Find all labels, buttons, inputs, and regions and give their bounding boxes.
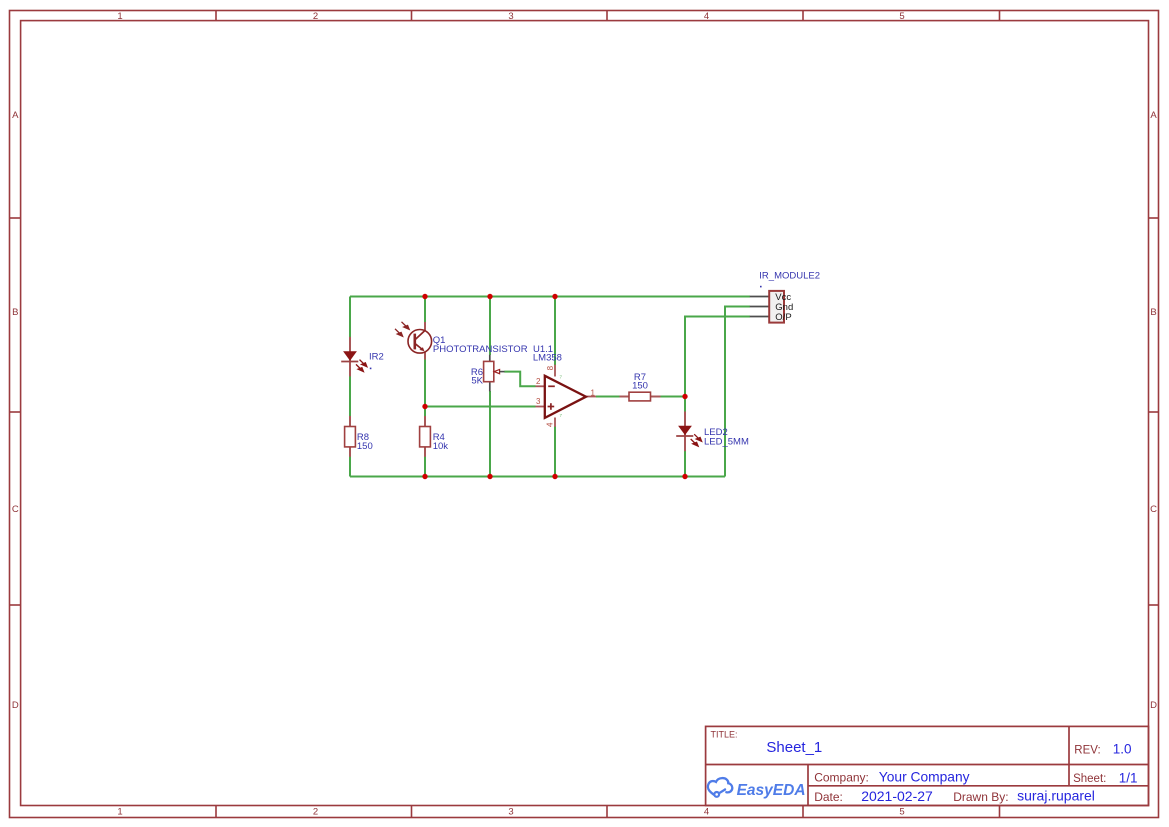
wire opamp output to R7: [596, 396, 620, 398]
wire wiper to pin2: [504, 372, 535, 387]
svg-text:Drawn By:: Drawn By:: [953, 790, 1008, 804]
junction node U1 pin4 / bottom rail: [552, 474, 557, 479]
junction node Q1 collector / Vcc rail: [422, 294, 427, 299]
svg-text:3: 3: [536, 397, 541, 406]
svg-text:REV:: REV:: [1074, 744, 1100, 756]
svg-text:LM358: LM358: [533, 353, 562, 364]
svg-text:Company:: Company:: [814, 770, 869, 784]
junction node LED2 / bottom rail: [682, 474, 687, 479]
svg-text:C: C: [12, 504, 19, 515]
resistor R8: [345, 416, 356, 457]
resistor R4: [420, 416, 431, 457]
svg-text:3: 3: [508, 11, 513, 22]
svg-text:suraj.ruparel: suraj.ruparel: [1017, 788, 1095, 804]
wire left vertical: [349, 297, 351, 477]
svg-text:10k: 10k: [433, 441, 449, 452]
svg-text:LED_5MM: LED_5MM: [704, 436, 749, 447]
svg-text:D: D: [12, 700, 19, 711]
svg-text:TITLE:: TITLE:: [711, 729, 738, 739]
svg-text:5: 5: [899, 11, 904, 22]
svg-text:1: 1: [591, 388, 596, 397]
junction node Q1 emitter / pin3: [422, 404, 427, 409]
phototransistor Q1: [395, 322, 432, 360]
svg-text:5: 5: [899, 807, 904, 818]
svg-text:A: A: [12, 110, 19, 121]
svg-text:2: 2: [313, 807, 318, 818]
tiny green marks: [559, 374, 562, 418]
svg-text:1/1: 1/1: [1119, 770, 1138, 785]
wire opamp V+ branch x=555: [554, 297, 556, 366]
connector IR_MODULE2: [750, 291, 793, 323]
svg-text:IR2: IR2: [369, 352, 384, 363]
svg-text:Your Company: Your Company: [879, 770, 970, 785]
svg-text:8: 8: [546, 365, 555, 370]
junction node R7 / LED2 / O/P: [682, 394, 687, 399]
svg-text:Sheet:: Sheet:: [1073, 773, 1106, 785]
junction node R6 / bottom rail: [487, 474, 492, 479]
wire LED2 branch x=685: [684, 397, 686, 413]
svg-text:D: D: [1150, 700, 1157, 711]
svg-text:IR_MODULE2: IR_MODULE2: [759, 270, 820, 281]
svg-text:150: 150: [632, 381, 648, 392]
junction node R4 / bottom rail: [422, 474, 427, 479]
svg-text:3: 3: [508, 807, 513, 818]
svg-text:150: 150: [357, 441, 373, 452]
op-amp U1.1: [536, 365, 596, 427]
wire Gnd net: [725, 307, 750, 477]
LED IR2: [341, 337, 367, 377]
svg-text:2: 2: [536, 377, 541, 386]
wire O/P net: [685, 317, 750, 397]
svg-text:PHOTOTRANSISTOR: PHOTOTRANSISTOR: [433, 344, 528, 355]
resistor R7: [620, 392, 661, 401]
junction node R6 top / Vcc rail: [487, 294, 492, 299]
svg-text:Sheet_1: Sheet_1: [766, 739, 822, 756]
svg-text:A: A: [1150, 110, 1157, 121]
svg-text:O/P: O/P: [775, 312, 791, 323]
wire to pin3: [425, 406, 536, 408]
svg-text:Date:: Date:: [814, 790, 843, 804]
junction node U1 pin8 / Vcc rail: [552, 294, 557, 299]
svg-text:EasyEDA: EasyEDA: [737, 782, 806, 799]
svg-text:C: C: [1150, 504, 1157, 515]
svg-text:1: 1: [117, 807, 122, 818]
svg-text:4: 4: [546, 422, 555, 427]
svg-text:4: 4: [704, 807, 709, 818]
svg-text:B: B: [12, 307, 18, 318]
wire bottom rail: [350, 476, 725, 478]
svg-text:2021-02-27: 2021-02-27: [861, 788, 933, 804]
svg-text:1.0: 1.0: [1113, 742, 1132, 757]
potentiometer R6: [484, 355, 505, 392]
svg-text:1: 1: [117, 11, 122, 22]
wire R6 branch x=490: [489, 297, 491, 356]
EasyEDA logo: [708, 778, 806, 799]
svg-text:2: 2: [313, 11, 318, 22]
svg-text:4: 4: [704, 11, 709, 22]
svg-text:5K: 5K: [471, 375, 483, 386]
LED LED2: [676, 412, 701, 452]
svg-text:B: B: [1150, 307, 1156, 318]
wire top rail Vcc: [350, 296, 750, 298]
wire Q1 branch x=425: [424, 297, 426, 324]
